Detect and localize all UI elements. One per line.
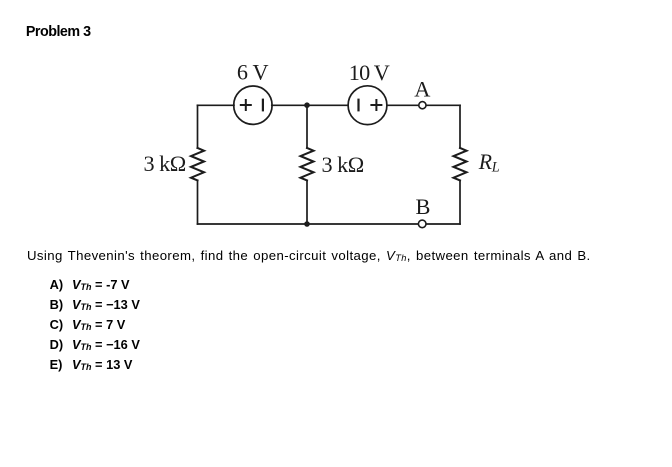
wire between 6V source and middle node: [272, 104, 348, 106]
terminal B open circle: [418, 220, 426, 228]
wire left branch upper: [197, 105, 199, 148]
voltage source V2 10V circle: [348, 86, 387, 125]
svg-text:10 V: 10 V: [349, 60, 390, 85]
V1 plus sign: [240, 99, 252, 111]
wire left branch lower: [197, 180, 199, 224]
resistor middle 3k zigzag: [301, 148, 314, 180]
svg-text:L: L: [491, 160, 500, 176]
wire right branch upper: [459, 105, 461, 148]
wire from 10V source to terminal A: [387, 104, 419, 106]
junction node bottom (middle branch): [304, 221, 310, 227]
svg-text:3 kΩ: 3 kΩ: [144, 151, 186, 176]
wire right branch lower: [459, 180, 461, 224]
wire middle branch upper: [306, 105, 308, 148]
terminal A open circle: [419, 102, 426, 109]
svg-text:A: A: [414, 77, 430, 102]
svg-text:6 V: 6 V: [237, 60, 269, 85]
option C: [50, 319, 64, 332]
wire top-left segment (left corner to 6V source): [198, 104, 235, 106]
svg-text:R: R: [478, 150, 492, 174]
option A: [50, 279, 64, 292]
resistor R left 3k zigzag: [191, 148, 204, 180]
wire middle branch lower: [306, 180, 308, 224]
resistor RL zigzag: [454, 148, 467, 180]
option D: [50, 339, 64, 352]
wire bottom right segment: [426, 223, 460, 225]
V2 minus bar: [357, 99, 359, 112]
svg-text:B: B: [416, 194, 431, 219]
option E: [50, 359, 63, 372]
title "Problem 3": [26, 25, 91, 39]
svg-text:3 kΩ: 3 kΩ: [322, 152, 364, 177]
V2 plus sign: [370, 99, 382, 111]
wire bottom left segment: [198, 223, 419, 225]
voltage source V1 6V circle: [234, 86, 272, 124]
junction node top (middle branch): [304, 102, 310, 108]
V1 minus bar: [262, 99, 264, 112]
wire from terminal A to top-right corner: [426, 104, 460, 106]
option B: [50, 299, 64, 312]
question paragraph: [27, 249, 591, 262]
